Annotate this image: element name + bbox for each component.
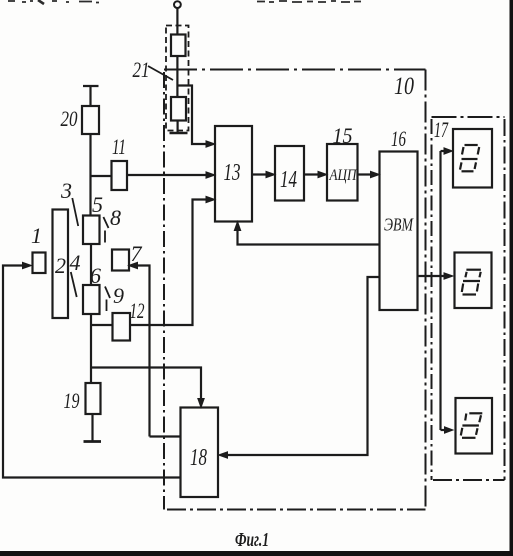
wire sensor to ground xyxy=(177,121,179,133)
svg-text:19: 19 xyxy=(64,388,80,413)
display digit block 3 xyxy=(456,398,493,454)
svg-text:3: 3 xyxy=(60,178,72,203)
wire 19 to ground xyxy=(91,414,93,441)
ground bar under 21 xyxy=(170,132,188,135)
wire 18 to loop left (block 1) xyxy=(3,266,181,478)
block 2 slit plate xyxy=(53,210,69,319)
scan border bottom xyxy=(0,551,513,556)
block 16 computer xyxy=(380,152,418,311)
svg-text:ЭВМ: ЭВМ xyxy=(384,215,414,235)
svg-text:15: 15 xyxy=(333,123,353,148)
terminal circle xyxy=(174,1,181,8)
cut-off text fragments top xyxy=(8,0,361,4)
ground bar under 19 xyxy=(84,440,102,443)
pointer line 3 xyxy=(72,198,78,226)
display digit block 1 xyxy=(453,129,492,188)
feedback wire 16 to 13 xyxy=(238,225,380,245)
pointer line 4 xyxy=(71,272,77,297)
wire 15 to 16 xyxy=(358,173,377,175)
svg-text:6: 6 xyxy=(90,263,101,288)
block 15 ADC xyxy=(327,144,358,201)
wire terminal to sensor xyxy=(176,8,178,35)
wire tap from 21 to block 13 input 1 xyxy=(177,86,212,145)
dash-dot box 10 xyxy=(164,70,426,510)
svg-text:17: 17 xyxy=(434,117,449,142)
photodetector block 6 xyxy=(83,285,100,314)
block 11 xyxy=(112,161,128,190)
wire junction to block 12 xyxy=(91,324,113,326)
svg-text:13: 13 xyxy=(224,160,241,186)
block 7 xyxy=(112,250,129,271)
dashed box 21 xyxy=(166,26,189,131)
wire 18 to 7 with arrow xyxy=(133,266,150,437)
svg-text:9: 9 xyxy=(113,283,124,308)
wire 13 to 14 xyxy=(252,173,272,175)
svg-text:Фиг.1: Фиг.1 xyxy=(235,529,269,551)
svg-text:8: 8 xyxy=(110,205,121,230)
wire feed to display 3 xyxy=(441,429,451,431)
wire 16 to 18 xyxy=(221,277,380,455)
display digit block 2 xyxy=(455,253,492,309)
wire below 6 to 19 xyxy=(90,314,92,383)
wire 18 left input upper xyxy=(150,435,181,437)
svg-text:18: 18 xyxy=(190,445,207,471)
block 13 xyxy=(215,126,252,222)
scan border right xyxy=(510,0,513,556)
seven-segment digit 3 xyxy=(461,413,483,438)
wire 14 to 15 xyxy=(304,173,324,175)
block 1 source xyxy=(33,253,46,274)
block 18 xyxy=(181,408,219,498)
sensor element lower (21) xyxy=(171,97,186,121)
block 12 xyxy=(113,313,131,341)
wire between sensor elements xyxy=(176,56,178,97)
svg-text:20: 20 xyxy=(61,106,78,131)
svg-text:1: 1 xyxy=(31,223,42,248)
wire 5 to 6 xyxy=(90,244,92,285)
svg-text:10: 10 xyxy=(394,73,414,100)
mark 9 strokes xyxy=(105,287,110,312)
svg-text:АЦП: АЦП xyxy=(329,167,358,184)
svg-text:2: 2 xyxy=(55,253,66,278)
display feed wire vertical xyxy=(439,151,441,430)
wire 12 to 13 input 3 xyxy=(130,200,212,326)
seven-segment digit 2 xyxy=(462,270,481,295)
wire 20 down to 5 xyxy=(89,134,91,216)
wire 11 to 13 input 2 xyxy=(127,174,212,176)
pointer line 21 xyxy=(148,66,173,80)
wire feed to display 1 xyxy=(441,150,449,152)
svg-text:12: 12 xyxy=(130,298,145,323)
photodetector block 5 xyxy=(83,216,100,245)
block 14 xyxy=(275,146,304,201)
svg-text:5: 5 xyxy=(92,192,103,217)
mark 8 strokes xyxy=(103,217,108,243)
svg-text:14: 14 xyxy=(280,167,297,193)
wire junction to block 11 xyxy=(91,175,112,177)
dash-dot box 17 xyxy=(432,117,505,480)
svg-text:16: 16 xyxy=(391,126,406,151)
svg-text:4: 4 xyxy=(70,250,81,275)
seven-segment digit 1 xyxy=(460,145,479,171)
svg-text:11: 11 xyxy=(112,134,126,159)
resistor block 19 xyxy=(86,383,101,414)
svg-text:21: 21 xyxy=(133,57,150,82)
resistor block 20 xyxy=(82,106,99,134)
sensor element upper (21) xyxy=(171,35,186,57)
wire junction to 18 top xyxy=(91,368,201,405)
antenna T-bar above 20 xyxy=(83,86,99,106)
wire 16 to display 2 xyxy=(418,275,451,277)
